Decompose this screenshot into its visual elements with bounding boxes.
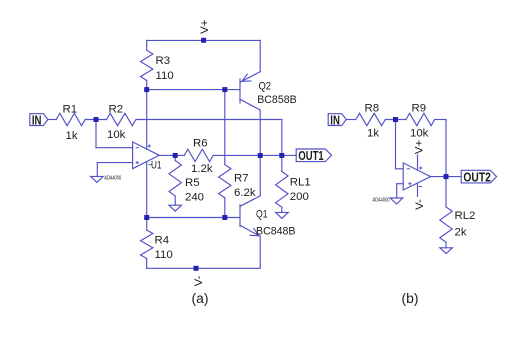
svg-text:R1: R1	[63, 104, 78, 116]
svg-text:1k: 1k	[367, 127, 379, 139]
svg-text:V-: V-	[414, 199, 426, 210]
svg-text:OUT1: OUT1	[298, 148, 323, 163]
svg-text:ADA4000: ADA4000	[373, 197, 390, 203]
svg-text:R7: R7	[234, 173, 249, 185]
svg-text:OUT2: OUT2	[463, 169, 491, 184]
svg-text:240: 240	[185, 191, 204, 203]
svg-text:10k: 10k	[107, 129, 126, 141]
svg-text:IN: IN	[32, 113, 42, 128]
svg-text:2k: 2k	[455, 226, 467, 238]
svg-text:110: 110	[156, 70, 174, 82]
svg-text:R9: R9	[412, 102, 427, 114]
svg-text:R6: R6	[193, 137, 208, 149]
svg-text:RL1: RL1	[290, 176, 311, 188]
svg-text:U1: U1	[151, 160, 162, 172]
svg-text:6.2k: 6.2k	[234, 187, 256, 199]
svg-text:110: 110	[155, 249, 173, 261]
svg-text:(b): (b)	[402, 291, 419, 306]
svg-text:Q2: Q2	[259, 81, 272, 93]
svg-text:BC858B: BC858B	[257, 94, 297, 106]
svg-text:R4: R4	[155, 234, 170, 246]
svg-text:10k: 10k	[410, 127, 429, 139]
svg-text:R8: R8	[365, 102, 380, 114]
svg-text:R2: R2	[109, 104, 124, 116]
svg-text:V+: V+	[414, 140, 426, 155]
svg-text:R3: R3	[156, 55, 171, 67]
svg-text:IN: IN	[330, 113, 340, 128]
svg-text:1.2k: 1.2k	[191, 163, 213, 175]
svg-text:V-: V-	[193, 275, 205, 286]
svg-text:V+: V+	[199, 19, 211, 34]
svg-text:1k: 1k	[66, 130, 78, 142]
svg-text:Q1: Q1	[256, 209, 268, 221]
svg-text:R5: R5	[185, 177, 200, 189]
svg-text:BC848B: BC848B	[256, 225, 296, 237]
svg-text:(a): (a)	[192, 291, 209, 306]
svg-text:ADA4000: ADA4000	[104, 175, 121, 181]
svg-text:200: 200	[290, 191, 309, 203]
svg-text:RL2: RL2	[455, 210, 476, 222]
